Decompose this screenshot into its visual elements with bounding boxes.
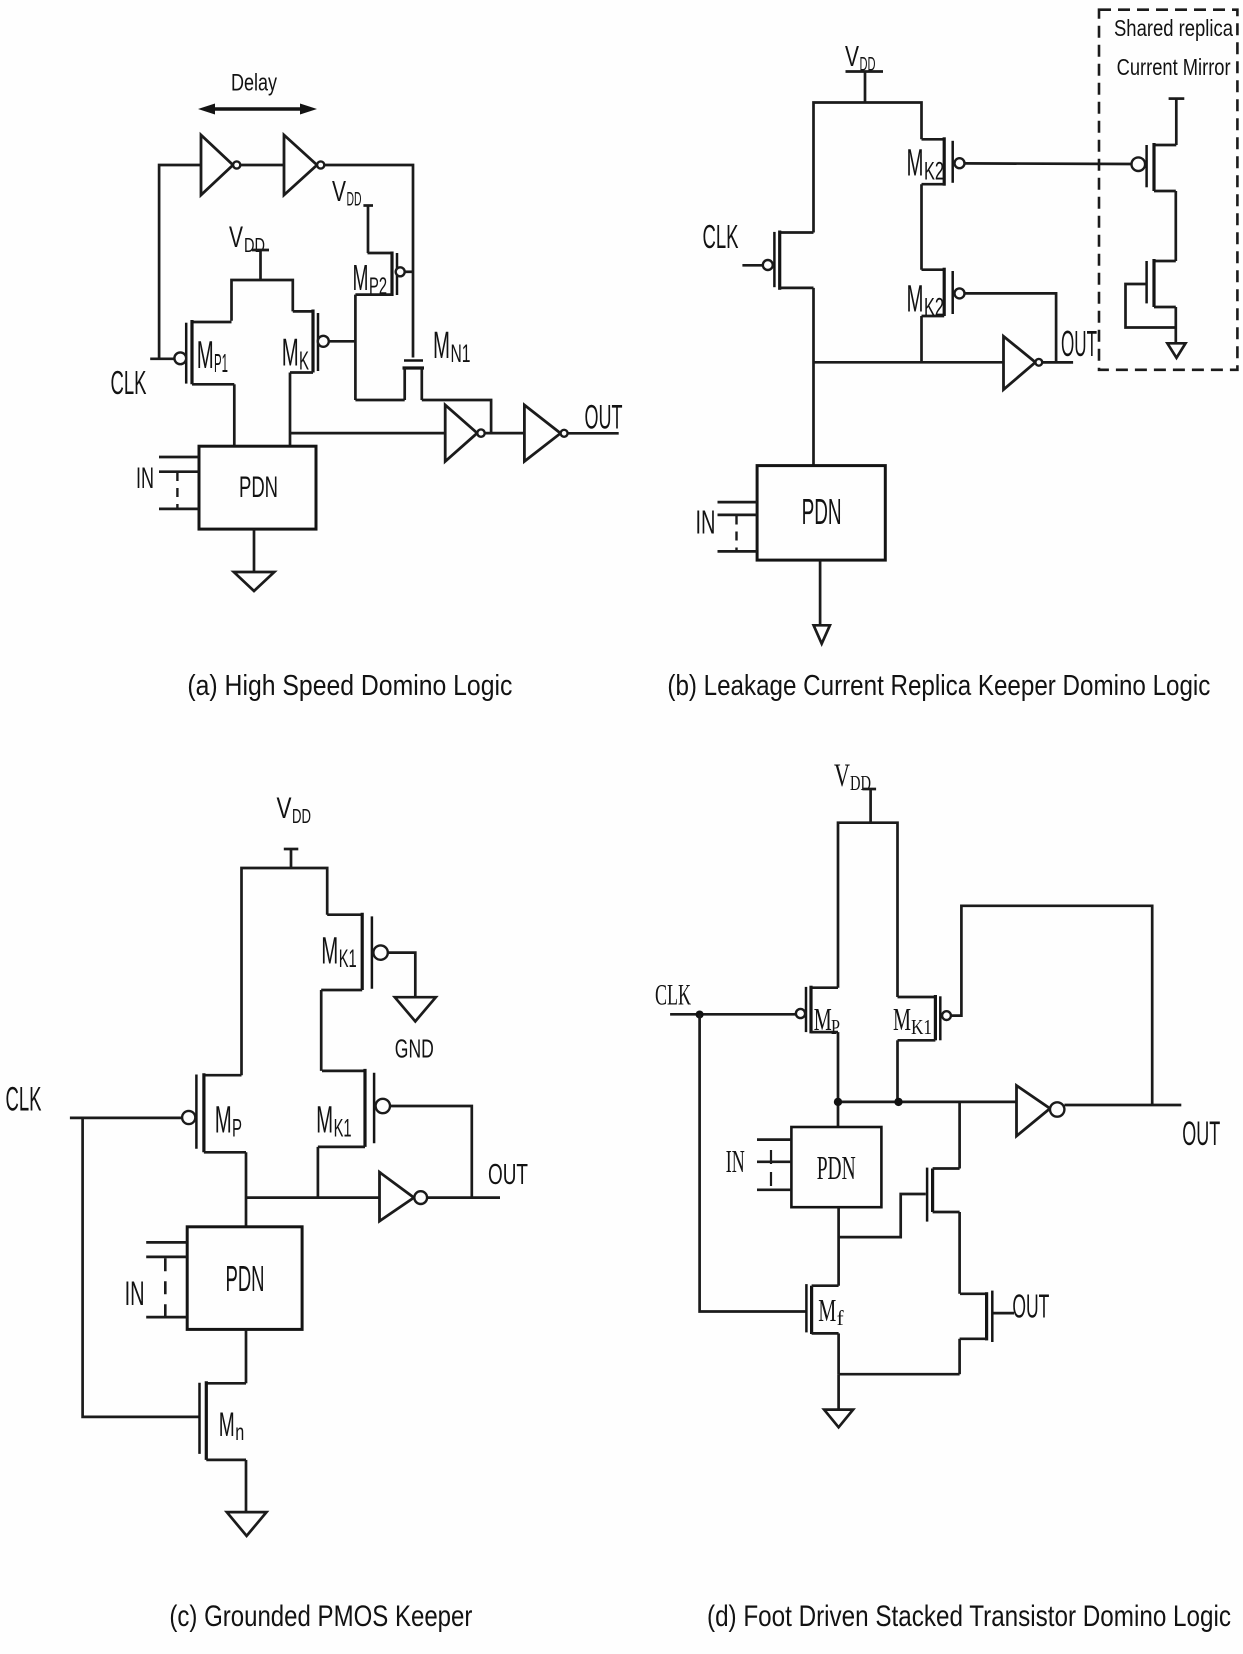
wire MP drain down through dynamic node to PDN top xyxy=(837,1032,840,1127)
VDD terminal (mirror) xyxy=(1169,99,1185,145)
label MK1 lower xyxy=(316,1099,352,1142)
ground (c) xyxy=(227,1512,267,1536)
PDN input lines (b) xyxy=(718,502,758,551)
wire MP2 gate bubble to delay line xyxy=(405,270,413,273)
wire ground rail to ground symbol (d) xyxy=(837,1374,840,1409)
svg-text:K: K xyxy=(299,346,309,376)
wire CLK input to MP1 gate bubble xyxy=(150,357,174,360)
wire inverter output to OUT (c) xyxy=(427,1196,500,1199)
wire MK1 lower drain to dynamic rail xyxy=(317,1147,320,1198)
svg-text:PDN: PDN xyxy=(226,1258,265,1299)
wire MK2 upper drain to MK2 lower source xyxy=(920,184,923,270)
svg-text:DD: DD xyxy=(292,806,311,828)
label MK1 upper xyxy=(321,930,357,973)
ground (mirror) xyxy=(1167,343,1185,358)
transistor MK1 upper (grounded keeper PMOS) xyxy=(321,913,372,990)
dynamic node rail (c) xyxy=(246,1196,380,1199)
transistor MP (precharge PMOS d) xyxy=(806,986,838,1034)
PDN box (d) xyxy=(791,1127,881,1207)
svg-text:OUT: OUT xyxy=(1012,1288,1049,1325)
inverter X3 (first output inverter) xyxy=(445,405,484,461)
transistor CLK precharge PMOS (b) xyxy=(774,231,813,290)
svg-text:DD: DD xyxy=(347,190,362,211)
bubble MP gate (d) xyxy=(796,1009,805,1018)
svg-text:PDN: PDN xyxy=(802,491,842,532)
svg-text:K1: K1 xyxy=(911,1015,932,1039)
svg-text:OUT: OUT xyxy=(1061,323,1097,364)
svg-text:M: M xyxy=(282,332,299,375)
svg-text:IN: IN xyxy=(696,504,716,541)
wire MK1 upper drain to MK1 lower source xyxy=(320,990,323,1071)
bubble MP gate (c) xyxy=(182,1111,195,1124)
PDN input ellipsis (d) xyxy=(770,1150,772,1190)
wire inverter output OUT (b) xyxy=(1042,361,1073,364)
wire X1 output to X2 input xyxy=(240,164,284,167)
wire CLK to MP gate (c) xyxy=(70,1117,182,1120)
junction dot dynamic node left xyxy=(834,1098,842,1106)
bubble MK gate xyxy=(318,336,329,347)
wire mirror NMOS drain to ground xyxy=(1174,307,1177,343)
wire PDN bottom to ground (a) xyxy=(253,529,256,572)
svg-text:M: M xyxy=(219,1406,235,1444)
PDN input lines (c) xyxy=(146,1242,187,1317)
svg-text:K1: K1 xyxy=(334,1114,352,1142)
label MP1 xyxy=(197,334,228,378)
wire precharge drain down to dynamic rail and PDN (b) xyxy=(812,288,815,466)
svg-text:CLK: CLK xyxy=(6,1081,42,1119)
VDD supply terminal (right, above MP2) xyxy=(332,176,373,253)
wire MP drain down to dynamic node and PDN top xyxy=(245,1152,248,1227)
svg-text:DD: DD xyxy=(850,771,871,795)
svg-text:M: M xyxy=(215,1099,232,1141)
PDN input lines (d) xyxy=(757,1140,791,1190)
PDN input ellipsis (a) xyxy=(176,472,178,509)
svg-text:M: M xyxy=(197,334,214,377)
wire CLK to MP gate (d) xyxy=(670,1013,796,1016)
svg-text:Shared replica: Shared replica xyxy=(1114,15,1233,41)
ground (a) xyxy=(234,572,274,591)
wire foot node to stacked NMOS M1 gate xyxy=(839,1194,926,1237)
svg-text:M: M xyxy=(818,1292,836,1328)
wire Mn source to ground (c) xyxy=(245,1460,248,1511)
shared replica current mirror dashed box xyxy=(1099,10,1237,370)
svg-text:IN: IN xyxy=(125,1275,145,1313)
label MK1 (d) xyxy=(893,1001,932,1039)
transistor Mf (foot NMOS d) xyxy=(806,1284,838,1334)
svg-text:M: M xyxy=(321,930,338,972)
label MP2 xyxy=(353,257,388,300)
transistor M2 output NMOS (bottom right) xyxy=(960,1291,993,1342)
wire MK2 lower gate to OUT feedback xyxy=(965,293,1057,362)
svg-text:K2: K2 xyxy=(924,294,944,322)
svg-text:(a) High Speed Domino Logic: (a) High Speed Domino Logic xyxy=(187,670,512,702)
bubble mirror PMOS gate (end of replica wire) xyxy=(1132,157,1146,171)
svg-text:K1: K1 xyxy=(339,945,357,973)
PDN input ellipsis (c) xyxy=(164,1258,167,1317)
svg-text:M: M xyxy=(814,1001,832,1037)
ground GND (c keeper gate) xyxy=(395,997,436,1021)
bubble CLK gate (b) xyxy=(763,260,773,270)
transistor MK1 lower (keeper PMOS c) xyxy=(318,1069,374,1147)
svg-text:N1: N1 xyxy=(451,340,471,368)
junction dot dynamic node right xyxy=(894,1098,902,1106)
svg-text:IN: IN xyxy=(726,1143,745,1179)
svg-text:(c) Grounded PMOS Keeper: (c) Grounded PMOS Keeper xyxy=(169,1600,472,1633)
svg-text:V: V xyxy=(845,41,859,73)
label Mn xyxy=(219,1406,245,1445)
wire CLK node up to delay inverter X1 input xyxy=(159,165,201,359)
wire dynamic node to inverter X3 input xyxy=(290,432,445,435)
wire CLK to gate (b) xyxy=(742,264,762,267)
wire MK1 gate feedback loop from OUT xyxy=(951,906,1152,1105)
label MK2 lower xyxy=(907,279,945,322)
bubble MK1 lower gate xyxy=(376,1099,390,1113)
PDN box (b) xyxy=(757,466,885,560)
svg-text:V: V xyxy=(229,221,243,254)
svg-text:M: M xyxy=(907,279,924,321)
wire dynamic rail down to M1 drain xyxy=(958,1102,961,1169)
svg-text:M: M xyxy=(907,143,924,185)
inverter (d) xyxy=(1017,1086,1065,1137)
wire MP1 drain down to PDN top xyxy=(233,384,236,446)
svg-text:CLK: CLK xyxy=(111,364,147,401)
transistor MP2 xyxy=(355,252,397,297)
wire CLK feedback to Mf gate xyxy=(700,1015,807,1312)
bubble MK1 upper gate xyxy=(373,945,387,959)
delay dimension arrow xyxy=(198,104,317,115)
svg-text:PDN: PDN xyxy=(817,1150,856,1187)
wire M2 gate stub to OUT label xyxy=(994,1312,1015,1315)
label MN1 xyxy=(433,325,471,368)
svg-text:M: M xyxy=(316,1099,333,1141)
junction CLK feedback dot xyxy=(696,1011,704,1019)
inverter X4 (second output inverter) xyxy=(524,405,567,461)
transistor Mn (clock footer NMOS) xyxy=(200,1381,247,1460)
node precharge VDD rail (b) xyxy=(814,103,922,233)
wire CLK feedback down to Mn gate xyxy=(83,1118,200,1417)
label MP (c) xyxy=(215,1099,242,1142)
node precharge VDD rail (c) xyxy=(242,868,328,1075)
transistor mirror PMOS (diode reference top) xyxy=(1147,143,1177,191)
svg-text:Delay: Delay xyxy=(231,70,277,97)
wire MK2 upper gate to shared replica current mirror xyxy=(965,162,1132,165)
transistor MK2 lower (keeper PMOS) xyxy=(922,268,953,316)
ground (d) xyxy=(824,1410,853,1428)
svg-text:Current Mirror: Current Mirror xyxy=(1117,54,1231,80)
svg-text:OUT: OUT xyxy=(488,1159,528,1191)
PDN input ellipsis (b) xyxy=(735,516,737,552)
label Mf xyxy=(818,1292,843,1330)
wire X3 output to X4 input xyxy=(485,432,525,435)
inverter X1 (delay buffer 1) xyxy=(201,135,240,195)
inverter (b) xyxy=(1004,336,1043,389)
VDD supply terminal (b) xyxy=(845,41,883,103)
svg-text:K2: K2 xyxy=(924,158,944,186)
svg-text:(b) Leakage Current Replica Ke: (b) Leakage Current Replica Keeper Domin… xyxy=(667,670,1210,702)
svg-text:n: n xyxy=(235,1419,244,1445)
VDD supply terminal (d) xyxy=(834,758,876,823)
wire diode connection (gate to drain) xyxy=(1126,284,1176,328)
svg-text:OUT: OUT xyxy=(1182,1115,1220,1153)
transistor MK1 (keeper PMOS d) xyxy=(898,995,941,1040)
svg-text:M: M xyxy=(433,325,450,367)
wire PDN bottom to Mn drain xyxy=(245,1329,248,1383)
svg-text:IN: IN xyxy=(136,462,154,495)
svg-text:(d) Foot Driven Stacked Transi: (d) Foot Driven Stacked Transistor Domin… xyxy=(707,1600,1231,1633)
wire PDN bottom to ground (b) xyxy=(819,560,822,625)
dynamic node rail (d) xyxy=(838,1101,1017,1104)
wire MN1 source rail left of staple xyxy=(355,399,404,402)
bubble MP2 gate xyxy=(396,267,405,276)
svg-text:f: f xyxy=(837,1306,844,1330)
svg-text:V: V xyxy=(277,792,292,825)
label MK xyxy=(282,332,310,376)
transistor MK2 upper (keeper PMOS) xyxy=(922,137,953,185)
VDD supply terminal (c) xyxy=(277,792,312,868)
wire MK1 upper gate to GND xyxy=(388,953,416,998)
PDN box (c) xyxy=(187,1227,302,1330)
transistor MP (precharge PMOS c) xyxy=(196,1073,246,1152)
PDN box (a) xyxy=(199,446,316,529)
svg-text:M: M xyxy=(893,1001,911,1037)
dynamic node rail (b) xyxy=(814,361,1004,364)
wire MP2 drain node down (joins MK gate wire) to MN1 rail xyxy=(354,295,357,400)
ground rail (d) xyxy=(839,1373,960,1376)
svg-text:V: V xyxy=(332,176,346,208)
label MK2 upper xyxy=(907,143,945,186)
wire MK1 drain to dynamic rail (d) xyxy=(896,1040,899,1102)
PDN input lines (a) xyxy=(159,457,199,509)
svg-text:P1: P1 xyxy=(214,348,228,378)
svg-text:CLK: CLK xyxy=(703,218,739,255)
svg-text:M: M xyxy=(353,257,369,298)
ground (b) xyxy=(814,625,830,643)
node precharge VDD rail (d) xyxy=(838,823,898,997)
wire PDN bottom to foot node and Mf xyxy=(837,1207,840,1286)
inverter (c) xyxy=(380,1172,428,1221)
svg-text:P2: P2 xyxy=(369,273,387,300)
transistor mirror NMOS (diode connected) xyxy=(1147,259,1176,307)
wire M1 source down to M2 drain xyxy=(958,1212,961,1294)
wire mirror PMOS drain to mirror NMOS source xyxy=(1174,191,1177,261)
VDD supply terminal (center, above MP1/MK) xyxy=(229,221,269,280)
wire X4 output to OUT xyxy=(568,432,619,435)
transistor MK (keeper PMOS) xyxy=(290,310,318,373)
svg-text:V: V xyxy=(834,758,850,794)
label MP (d) xyxy=(814,1001,840,1039)
wire MN1 source rail right, down to X3 output node xyxy=(422,400,491,433)
svg-text:PDN: PDN xyxy=(239,471,278,504)
bubble MK2 upper gate xyxy=(955,158,965,168)
transistor MP1 (precharge PMOS) xyxy=(186,320,234,384)
wire MK2 lower drain to dynamic rail xyxy=(920,316,923,362)
wire X2 output right and down to MN1 gate xyxy=(324,165,413,358)
svg-text:GND: GND xyxy=(395,1034,434,1064)
wire MK gate to MP2/MN1 drain node xyxy=(329,340,356,343)
svg-text:P: P xyxy=(232,1114,242,1142)
svg-text:OUT: OUT xyxy=(585,399,623,437)
wire inverter output to OUT (d) xyxy=(1064,1104,1181,1107)
transistor MN1 (NMOS) xyxy=(403,361,425,401)
svg-text:CLK: CLK xyxy=(655,979,691,1012)
wire MK drain down to dynamic node / PDN top xyxy=(289,373,292,447)
bubble MP1 gate xyxy=(174,352,186,364)
transistor M1 stacked NMOS (middle) xyxy=(927,1168,960,1222)
bubble MK1 gate (d) xyxy=(942,1011,951,1020)
wire M2 source to ground rail xyxy=(958,1339,961,1374)
inverter X2 (delay buffer 2) xyxy=(284,135,324,195)
wire MK1 lower gate to OUT feedback xyxy=(390,1106,472,1198)
bubble MK2 lower gate xyxy=(955,288,965,298)
wire Mf source to ground rail xyxy=(837,1333,840,1374)
node VDD rail of MP1/MK pair xyxy=(232,280,293,321)
